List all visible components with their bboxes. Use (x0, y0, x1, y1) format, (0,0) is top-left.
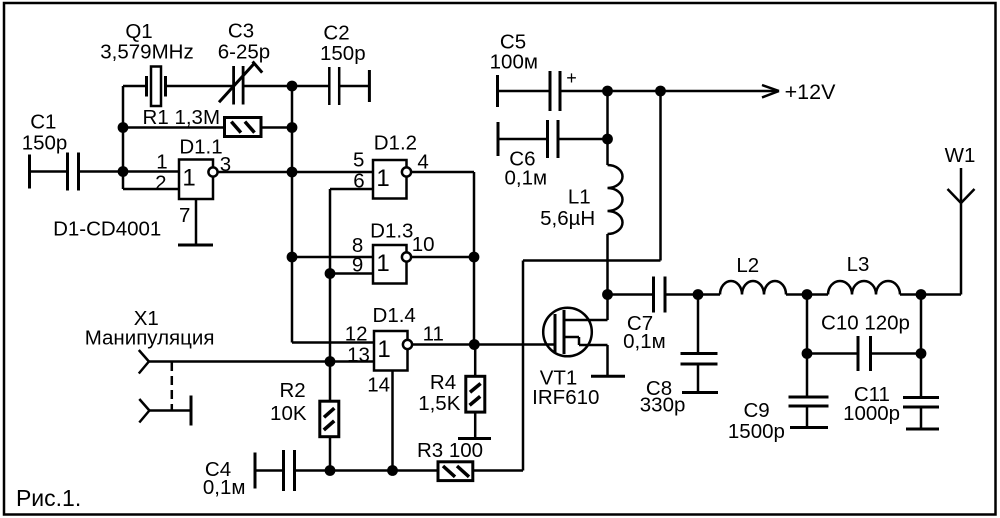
capacitor C10 (807, 352, 858, 355)
svg-text:W1: W1 (945, 144, 976, 167)
wire D1.1 output (219, 171, 374, 174)
svg-text:150p: 150p (22, 132, 68, 155)
wire supply riser left (522, 261, 525, 471)
svg-text:C10 120p: C10 120p (821, 312, 910, 335)
wire pin 9 (330, 272, 373, 275)
svg-text:C9: C9 (743, 399, 769, 422)
wire L3 right lead (900, 293, 921, 296)
capacitor C9 (806, 295, 809, 398)
svg-text:D1.1: D1.1 (179, 136, 222, 159)
node pin 10 junction (469, 252, 480, 263)
svg-text:C3: C3 (228, 20, 254, 43)
capacitor C1 (28, 155, 31, 189)
wire pin 8 (292, 256, 373, 259)
wire output bus C (473, 172, 476, 345)
capacitor C8 (697, 295, 700, 354)
svg-text:14: 14 (367, 374, 390, 397)
node C3/C2 junction (287, 81, 298, 92)
inductor L1 (608, 165, 623, 234)
crystal Q1 (145, 76, 148, 97)
svg-text:6-25p: 6-25p (218, 41, 270, 64)
svg-text:2: 2 (155, 172, 166, 195)
node pin 9 junction (325, 268, 336, 279)
wire L1 bottom lead (606, 234, 609, 295)
svg-text:13: 13 (347, 343, 370, 366)
svg-text:0,1м: 0,1м (203, 476, 246, 499)
svg-text:D1.3: D1.3 (370, 219, 413, 242)
svg-text:100м: 100м (490, 51, 538, 74)
resistor R3 (438, 462, 473, 481)
svg-text:1: 1 (376, 165, 389, 192)
resistor R4 (474, 345, 477, 377)
node C10 left junction (802, 348, 813, 359)
svg-text:+12V: +12V (785, 80, 836, 104)
capacitor C5 (496, 75, 499, 107)
svg-text:IRF610: IRF610 (532, 386, 599, 409)
svg-text:R4: R4 (430, 371, 456, 394)
node pin 11 junction (469, 339, 480, 350)
svg-text:5,6µH: 5,6µH (540, 207, 595, 230)
node pin 14 junction (387, 465, 398, 476)
wire L2 left lead (698, 293, 720, 296)
capacitor C2 (292, 85, 329, 88)
node rail/L1 junction (602, 86, 613, 97)
connector X1 top pin (139, 350, 149, 362)
capacitor C4 (254, 453, 257, 489)
wire bus B lower (329, 437, 332, 471)
svg-text:Рис.1.: Рис.1. (16, 485, 81, 511)
wire L2 right lead (786, 293, 807, 296)
svg-text:1: 1 (376, 250, 389, 277)
node bus B bottom junction (325, 465, 336, 476)
svg-text:3,579MHz: 3,579MHz (100, 41, 193, 64)
svg-text:10: 10 (412, 233, 435, 256)
node C1/pin1 junction (118, 166, 129, 177)
svg-text:1: 1 (182, 165, 195, 192)
node L3 output junction (916, 289, 927, 300)
svg-text:1: 1 (377, 336, 390, 363)
wire L3 left lead (807, 293, 828, 296)
trimmer capacitor C3 (232, 66, 235, 105)
node C7/C8/L2 junction (693, 289, 704, 300)
svg-text:R3 100: R3 100 (417, 439, 483, 462)
wire bus A vertical (291, 86, 294, 343)
node C10 right junction (916, 348, 927, 359)
inductor L3 (828, 281, 900, 295)
wire D1.2 output (412, 171, 474, 174)
svg-text:1,5K: 1,5K (418, 392, 460, 415)
gate D1.2 (373, 160, 407, 199)
svg-text:L2: L2 (736, 254, 759, 277)
svg-text:R2: R2 (279, 379, 305, 402)
svg-text:D1-CD4001: D1-CD4001 (53, 217, 161, 240)
svg-text:150p: 150p (320, 42, 366, 65)
svg-text:1500p: 1500p (728, 420, 785, 443)
wire input bus vertical (122, 86, 125, 189)
svg-text:L1: L1 (568, 186, 591, 209)
wire Q1 left (123, 85, 147, 88)
wire bottom supply (330, 469, 438, 472)
node D1.1 output junction (287, 167, 298, 178)
arrow +12V (762, 85, 779, 91)
gate D1.3 (373, 245, 407, 284)
connector X1 gang dashed line (171, 362, 174, 411)
wire pin 7 (195, 199, 198, 244)
node C6/L1 junction (602, 134, 613, 145)
svg-text:5: 5 (353, 149, 364, 172)
wire pin2 jog (123, 188, 179, 191)
capacitor C6 (497, 122, 500, 156)
svg-text:0,1м: 0,1м (505, 167, 548, 190)
svg-text:0,1м: 0,1м (623, 330, 666, 353)
wire pin 12 (292, 341, 374, 344)
node pin 8 junction (287, 252, 298, 263)
svg-text:C1: C1 (30, 111, 56, 134)
wire supply horizontal (523, 259, 661, 262)
svg-text:7: 7 (179, 204, 190, 227)
ground R4 (458, 437, 491, 440)
node rail/supply junction (655, 86, 666, 97)
wire pin 13 (149, 360, 374, 363)
wire +12V rail (560, 90, 779, 93)
svg-text:Манипуляция: Манипуляция (85, 327, 215, 350)
svg-text:4: 4 (417, 151, 428, 174)
capacitor C11 (903, 396, 939, 399)
node L2/L3 junction (802, 289, 813, 300)
antenna W1 (960, 168, 963, 295)
wire R1 left (123, 126, 225, 129)
resistor R2 (320, 401, 339, 437)
svg-text:D1.4: D1.4 (373, 304, 416, 327)
ground D1.1 pin7 (178, 244, 213, 247)
wire bus B upper (329, 189, 332, 401)
svg-text:330p: 330p (640, 393, 686, 416)
wire pin 14 (391, 371, 394, 471)
svg-text:1: 1 (156, 151, 167, 174)
inductor L2 (720, 281, 786, 295)
wire D1.3 output (412, 256, 474, 259)
svg-text:R1 1,3M: R1 1,3M (143, 106, 220, 129)
node R1 left junction (118, 122, 129, 133)
wire W1 horizontal (921, 293, 961, 296)
svg-text:L3: L3 (847, 253, 870, 276)
gate D1.4 (374, 331, 408, 371)
capacitor C7 (608, 293, 654, 296)
svg-text:+: + (566, 68, 577, 88)
resistor R1 (225, 118, 262, 137)
connector X1 bottom pin (139, 399, 149, 411)
wire C11 top lead (920, 295, 923, 398)
transistor VT1 (543, 308, 592, 357)
node R1 right junction (287, 122, 298, 133)
svg-text:D1.2: D1.2 (374, 131, 417, 154)
node pin 13 junction (325, 356, 336, 367)
svg-text:11: 11 (423, 323, 444, 346)
wire D1.4 output to gate (413, 343, 555, 346)
wire supply riser right (659, 91, 662, 261)
wire L1 top lead (606, 91, 609, 165)
ground VT1 source (591, 375, 625, 378)
svg-text:1000p: 1000p (843, 402, 900, 425)
svg-text:10K: 10K (270, 402, 307, 425)
wire pin 6 (330, 188, 373, 191)
gate D1.1 (179, 160, 213, 200)
node VT1 drain junction (602, 289, 613, 300)
